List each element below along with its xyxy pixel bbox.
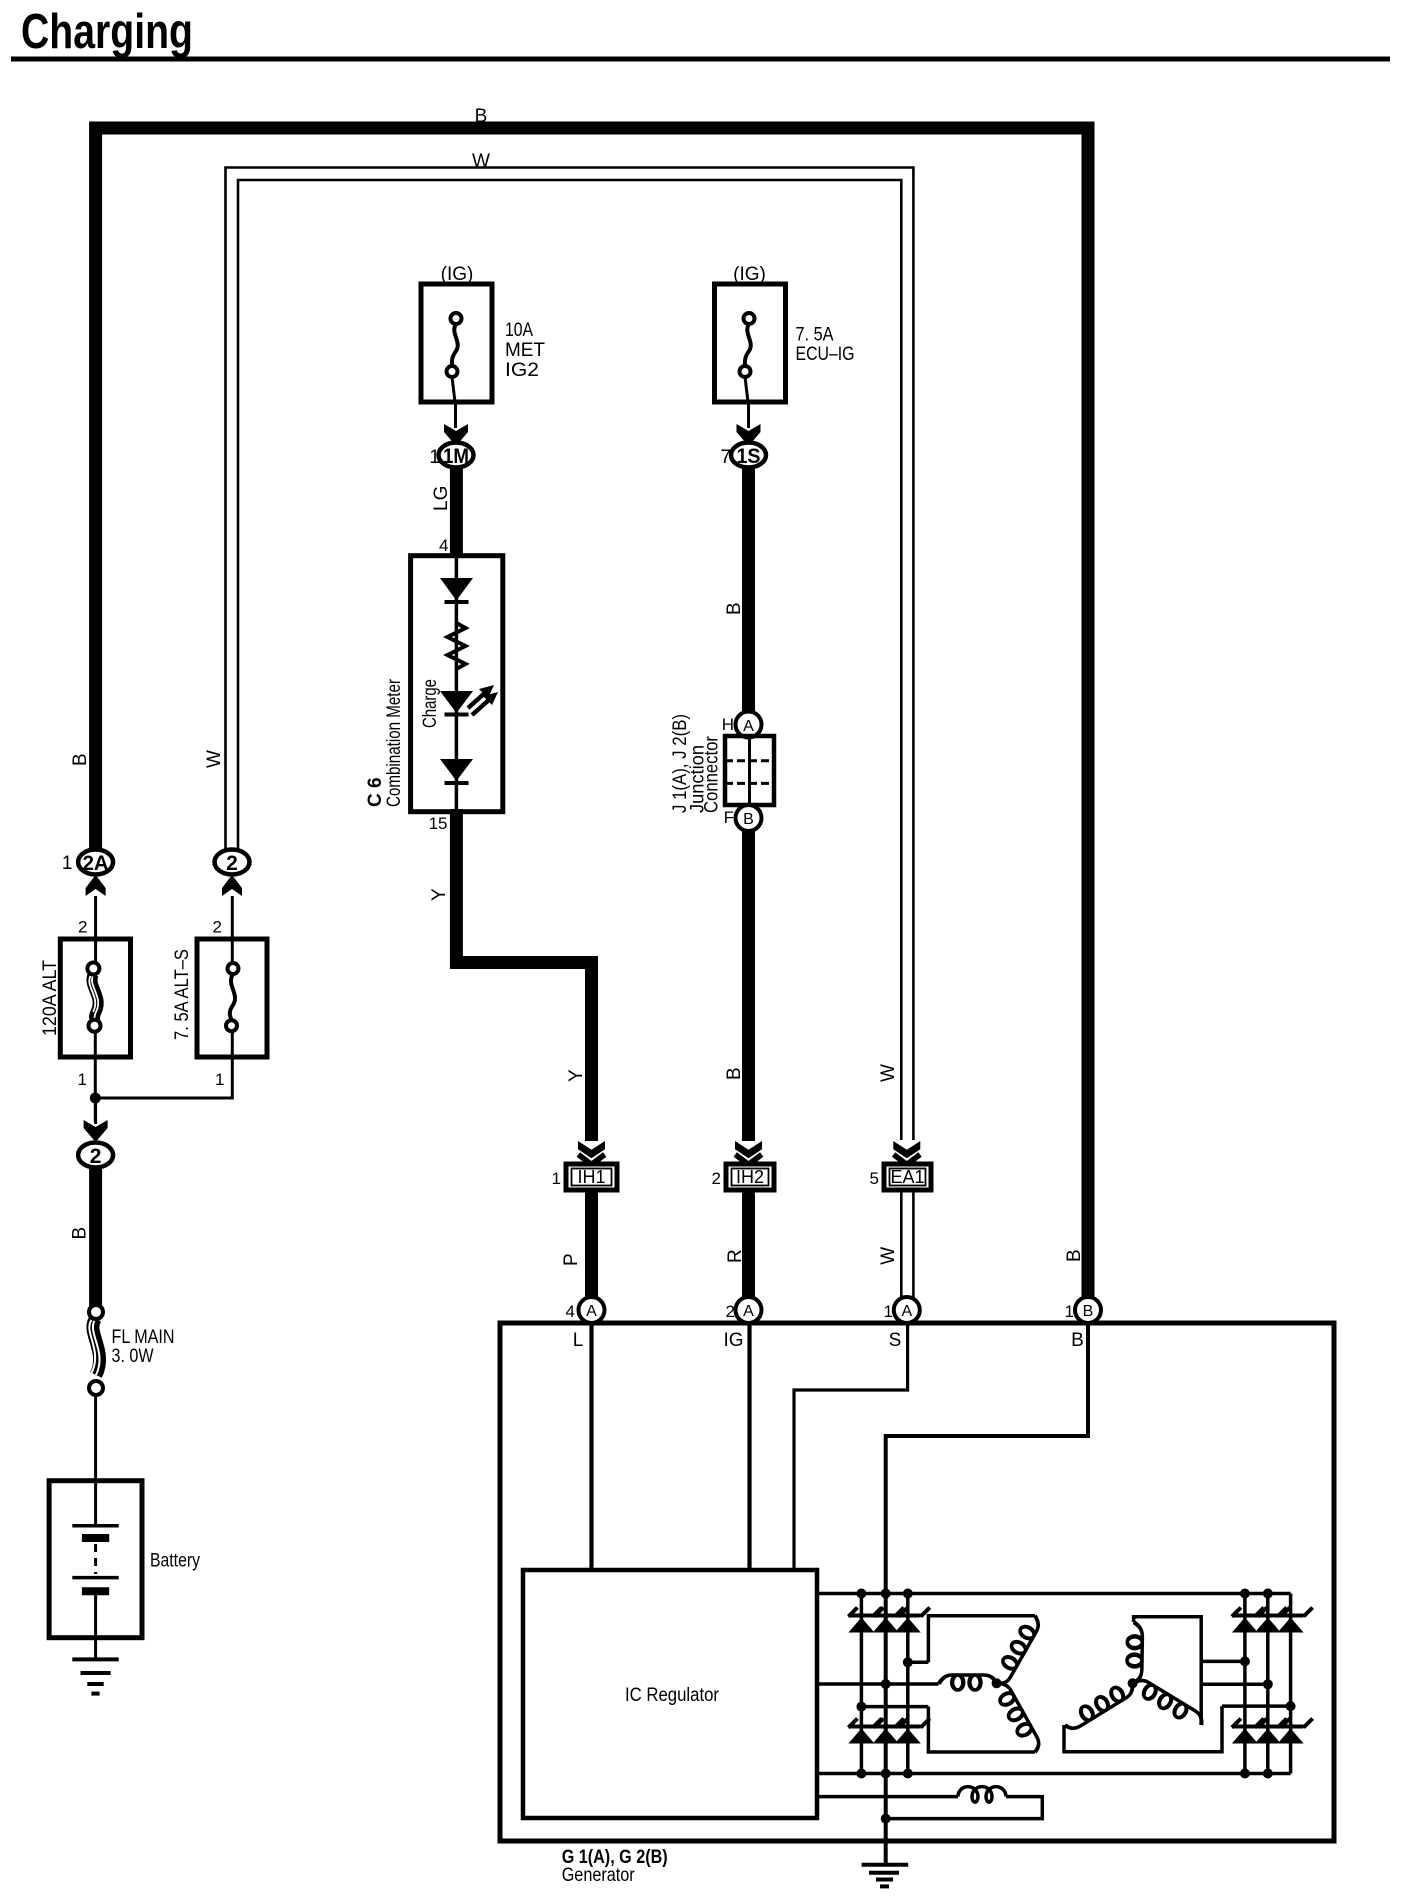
ground battery [72, 1659, 118, 1693]
stator G2 phase coil bottom-right [1129, 1676, 1205, 1731]
stator G1 phase coil bottom-right [991, 1679, 1043, 1755]
svg-text:C 6: C 6 [365, 777, 386, 807]
svg-text:W: W [878, 1247, 899, 1265]
svg-text:120A ALT: 120A ALT [40, 960, 61, 1036]
svg-text:1: 1 [78, 1070, 87, 1089]
svg-text:Y: Y [566, 1069, 587, 1082]
node junction dot [90, 1093, 101, 1104]
right rectifier column R2 [1266, 1594, 1270, 1774]
connector 2 (battery line) [78, 1143, 113, 1168]
connector 1M [429, 443, 473, 469]
svg-text:A: A [743, 718, 754, 735]
stator G1 phase coil left [939, 1675, 997, 1690]
svg-text:2: 2 [226, 852, 238, 875]
svg-text:2: 2 [78, 918, 87, 937]
wire stub G2 to column R2 [1201, 1683, 1268, 1687]
wire L to IC regulator [589, 1323, 593, 1570]
svg-text:3. 0W: 3. 0W [112, 1346, 154, 1367]
wire B to FL MAIN [89, 1166, 102, 1306]
svg-text:7. 5A ALT–S: 7. 5A ALT–S [172, 949, 193, 1040]
svg-text:IG2: IG2 [505, 360, 539, 381]
diode D8 [1255, 1608, 1290, 1633]
chevrons into IH1 IH2 EA1 [578, 1141, 605, 1165]
svg-text:A: A [586, 1303, 597, 1320]
generator G1(A) G2(B) box [500, 1323, 1334, 1841]
svg-text:1: 1 [884, 1302, 893, 1321]
svg-text:S: S [889, 1330, 902, 1351]
wire stub column3 to stator G1 [908, 1661, 929, 1665]
fusible link 120A ALT [40, 939, 131, 1057]
diode D1 [848, 1608, 883, 1633]
svg-text:IH2: IH2 [736, 1167, 764, 1187]
svg-text:B: B [1083, 1303, 1094, 1320]
fusible link FL MAIN 3.0W [89, 1305, 175, 1395]
diode D5 [873, 1719, 908, 1744]
svg-text:7. 5A: 7. 5A [796, 325, 834, 346]
wire R IH2 to gen [742, 1190, 755, 1298]
diode D11 [1255, 1719, 1290, 1744]
wire Y meter to IH1 [456, 809, 591, 1141]
svg-text:L: L [573, 1330, 584, 1351]
stator G2 winding frame [1064, 1617, 1222, 1752]
bus rectifier bottom [817, 1772, 1291, 1776]
svg-text:LG: LG [431, 486, 452, 511]
right rectifier column R1 [1243, 1594, 1247, 1774]
svg-text:A: A [901, 1303, 912, 1320]
svg-text:15: 15 [429, 814, 448, 833]
wire IG to IC regulator [747, 1323, 751, 1570]
wire W EA1 to gen [900, 1190, 903, 1298]
wire ALT-S top to connector 2 [231, 896, 234, 962]
svg-text:7: 7 [720, 447, 731, 468]
wire B to rectifier/ground [886, 1323, 1088, 1864]
svg-text:2A: 2A [83, 852, 109, 875]
left rectifier column 3 [906, 1594, 910, 1774]
wire node to connector 2 (bottom) [94, 1103, 97, 1124]
svg-text:B: B [743, 811, 754, 828]
IC Regulator U1 [523, 1570, 817, 1818]
wire FL MAIN to battery [94, 1395, 97, 1481]
node stator G2 center [1128, 1678, 1138, 1688]
connector circle 1(A) pin S [894, 1297, 920, 1323]
combination meter C6 [411, 556, 503, 812]
resistor [448, 623, 466, 669]
left rectifier column 1 [860, 1594, 864, 1774]
ground generator [862, 1865, 909, 1887]
title rule [11, 57, 1390, 62]
svg-text:W: W [204, 750, 225, 768]
svg-text:B: B [475, 106, 488, 127]
svg-text:1: 1 [552, 1169, 561, 1188]
svg-text:FL MAIN: FL MAIN [112, 1327, 175, 1348]
diode D7 [1232, 1608, 1267, 1633]
diode D12 [1278, 1719, 1313, 1744]
wire S to IC regulator [794, 1323, 908, 1570]
diode D4 [848, 1719, 883, 1744]
svg-text:1: 1 [215, 1070, 224, 1089]
connector EA1 [870, 1164, 931, 1190]
svg-text:ECU–IG: ECU–IG [796, 344, 855, 365]
stator G1 phase coil top-right [991, 1613, 1042, 1688]
svg-text:B: B [724, 602, 745, 615]
wire stub G2 to column R1 [1201, 1660, 1245, 1664]
node dot mid phase on column 2 [881, 1679, 891, 1689]
diode D1 [440, 578, 473, 601]
rotor field coil [817, 1795, 958, 1799]
wire B to junction connector [742, 466, 755, 713]
connector circle 4(A) pin L [579, 1297, 605, 1323]
diode D10 [1232, 1719, 1267, 1744]
wire P IH1 to gen [585, 1190, 598, 1298]
svg-text:W: W [472, 151, 490, 172]
svg-text:B: B [70, 753, 91, 766]
fuse 7.5A ALT-S [172, 939, 267, 1057]
connector IH2 [712, 1164, 774, 1190]
connector 1S [720, 443, 766, 469]
svg-text:B: B [1071, 1330, 1084, 1351]
diode D9 [1278, 1608, 1313, 1633]
svg-text:IC Regulator: IC Regulator [625, 1685, 720, 1706]
svg-text:P: P [561, 1253, 582, 1266]
svg-text:1M: 1M [443, 445, 469, 468]
wire W double-line loop [226, 168, 914, 1141]
connector 2 (left W) [215, 850, 250, 876]
svg-text:EA1: EA1 [890, 1167, 924, 1187]
LED charge lamp [440, 691, 473, 713]
svg-text:MET: MET [505, 340, 545, 361]
node dots right bank top bus [1240, 1589, 1250, 1599]
stator G2 phase coil bottom-left [1062, 1678, 1138, 1732]
wire ALT to node [94, 1031, 97, 1122]
svg-text:F: F [724, 808, 734, 827]
svg-text:1: 1 [429, 447, 440, 468]
svg-text:Charging: Charging [21, 5, 193, 59]
svg-text:Generator: Generator [562, 1865, 636, 1886]
diode D3 [895, 1608, 930, 1633]
svg-text:IH1: IH1 [577, 1167, 605, 1187]
svg-text:Y: Y [429, 888, 450, 901]
svg-text:Combination Meter: Combination Meter [384, 678, 405, 807]
connector circle 1(B) pin B [1075, 1297, 1101, 1323]
wire LG [450, 466, 463, 556]
svg-text:10A: 10A [505, 320, 533, 341]
svg-text:A: A [743, 1303, 754, 1320]
svg-text:W: W [878, 1064, 899, 1082]
wire stub column1 to stator G1 lower [861, 1705, 928, 1709]
svg-text:2: 2 [726, 1302, 735, 1321]
wire B main loop (battery feed, thick) [96, 128, 1088, 1298]
svg-text:Connector: Connector [702, 735, 723, 813]
svg-text:Battery: Battery [150, 1550, 200, 1571]
node dots right bank bottom bus [1240, 1769, 1250, 1779]
svg-text:IG: IG [723, 1330, 743, 1351]
svg-text:2: 2 [213, 918, 222, 937]
svg-text:1: 1 [62, 853, 73, 874]
fuse 7.5A ECU-IG [715, 264, 855, 402]
svg-text:1S: 1S [737, 445, 761, 468]
svg-text:H: H [722, 715, 734, 734]
wire branch to ALT-S [95, 1031, 232, 1098]
wire phase mid (IC to left stator) [817, 1682, 939, 1686]
node dots left bank top bus [856, 1589, 866, 1599]
node stator G1 center [992, 1678, 1002, 1688]
battery [49, 1481, 200, 1660]
wire stub G2 to column R3 [1222, 1704, 1291, 1708]
diode D3 [440, 759, 473, 781]
svg-text:B: B [724, 1067, 745, 1080]
diode D2 [873, 1608, 908, 1633]
svg-text:B: B [1064, 1249, 1085, 1262]
svg-text:4: 4 [566, 1302, 575, 1321]
wire fuse to 1S [747, 402, 750, 428]
wire fuse to 1M [454, 402, 457, 428]
svg-text:2: 2 [90, 1145, 102, 1168]
svg-text:2: 2 [712, 1169, 721, 1188]
svg-text:1: 1 [1065, 1302, 1074, 1321]
diode D6 [895, 1719, 930, 1744]
svg-text:Charge: Charge [420, 679, 441, 728]
junction connector J1/J2 [670, 712, 774, 832]
connector circle 2(A) pin IG [736, 1297, 762, 1323]
node dots left bank bottom bus [856, 1769, 866, 1779]
right rectifier column R3 [1289, 1594, 1293, 1774]
connector 2A [62, 850, 113, 876]
svg-text:4: 4 [439, 536, 448, 555]
wire B junction to IH2 [742, 831, 755, 1141]
stator G2 phase coil top [1127, 1622, 1143, 1684]
svg-text:R: R [725, 1249, 746, 1263]
wire 2A to fuse 120A ALT [94, 896, 97, 963]
svg-text:5: 5 [870, 1169, 879, 1188]
bus rectifier top [817, 1592, 1291, 1596]
connector IH1 [552, 1164, 617, 1190]
node dot field return on B line [881, 1814, 891, 1824]
svg-text:B: B [70, 1227, 91, 1240]
fuse 10A MET IG2 [421, 264, 545, 402]
stator G1 winding frame [928, 1616, 1035, 1752]
